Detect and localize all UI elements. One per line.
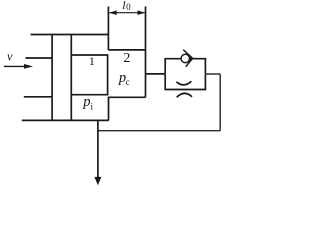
- spring upper arc: [176, 81, 191, 85]
- svg-text:2: 2: [123, 51, 130, 66]
- wire: stub to relief valve: [146, 73, 166, 75]
- wire: drain bottom line: [98, 130, 220, 132]
- wire: spool second wall: [70, 35, 72, 121]
- wire: spool left wall: [51, 35, 53, 121]
- svg-text:c: c: [126, 77, 130, 87]
- wire: block bottom edge: [22, 119, 109, 121]
- relief valve box U1: [165, 59, 205, 90]
- svg-text:1: 1: [89, 54, 95, 68]
- wire: chamber2 bottom edge: [109, 97, 146, 120]
- svg-text:i: i: [91, 101, 94, 111]
- check valve seat apex wedge: [189, 55, 193, 61]
- dimension l0 arrow: [109, 10, 145, 15]
- wire: relief valve right stub: [205, 73, 220, 75]
- wire: chamber2 left upper wall: [107, 7, 109, 50]
- wire: lower left stub: [24, 96, 52, 98]
- spring lower arc: [177, 93, 192, 97]
- svg-text:v: v: [7, 50, 13, 64]
- check valve ball U1: [181, 54, 189, 62]
- wire: block top edge: [31, 34, 110, 36]
- svg-text:p: p: [82, 94, 90, 110]
- wire: drain right drop: [219, 74, 221, 131]
- drain down arrow: [94, 120, 101, 185]
- wire: upper left stub: [25, 57, 52, 59]
- wire: chamber2 right wall: [145, 7, 147, 98]
- node chamber 1 box: [71, 55, 107, 95]
- hydraulic pilot valve schematic: [0, 0, 234, 188]
- wire: chamber2 top edge: [108, 49, 145, 51]
- check valve seat: [183, 50, 192, 67]
- v velocity arrow: [4, 64, 33, 69]
- svg-text:0: 0: [126, 2, 131, 12]
